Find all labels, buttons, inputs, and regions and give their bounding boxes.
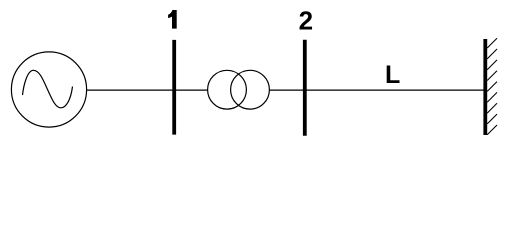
svg-text:L: L	[385, 61, 400, 89]
svg-text:2: 2	[299, 5, 313, 35]
